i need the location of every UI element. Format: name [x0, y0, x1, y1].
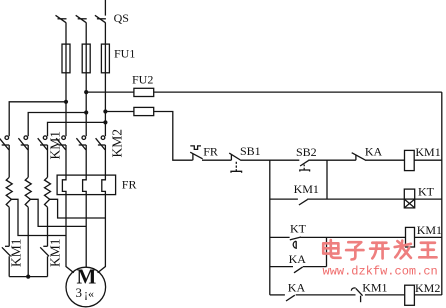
time relay contact KT delayed NO	[290, 237, 301, 248]
wire phase 1 vertical	[65, 23, 67, 136]
svg-text:FU1: FU1	[114, 46, 135, 60]
wire KM1 pole 2 lower	[27, 145, 29, 177]
resistor R phase 3	[45, 177, 51, 207]
wire KM2 pole 3 lower	[104, 145, 106, 175]
FR heater element 3	[102, 175, 106, 195]
wire bottom tie	[9, 276, 47, 278]
svg-text:KT: KT	[290, 222, 307, 236]
svg-text:3: 3	[76, 285, 83, 300]
coil KM1 rung3	[406, 227, 415, 247]
wire rung3 a	[270, 236, 290, 238]
svg-text:KM2: KM2	[110, 129, 125, 158]
wire left rail control	[269, 160, 271, 295]
pushbutton SB2 NO	[300, 160, 310, 171]
motor label M 3~	[76, 265, 97, 301]
contactor KM1 main contact 1	[0, 136, 9, 150]
svg-text:KM1: KM1	[362, 281, 387, 295]
wire branch row 1 to KM1 column 1	[9, 102, 66, 136]
wire rung4 a	[270, 266, 293, 268]
svg-text:¡«: ¡«	[84, 287, 94, 301]
wire incoming phase L3 top	[104, 0, 106, 16]
resistor R phase 1	[6, 177, 12, 207]
thermal relay FR heater box	[57, 175, 116, 195]
wire rung2 a	[270, 198, 298, 200]
resistor R phase 2	[25, 177, 31, 207]
wire vertical B	[326, 237, 328, 266]
wire branch row 3 to KM1 column 3	[48, 122, 106, 136]
char wang	[419, 243, 436, 258]
disconnect switch QS pole 2	[76, 15, 87, 22]
char zi	[346, 242, 363, 259]
wire motor lead 2	[85, 195, 87, 268]
contactor KM1 aux contact bottom 1	[2, 246, 11, 276]
wire branch row 2 to KM1 column 2	[28, 113, 86, 137]
contactor KM2 main contact 3	[96, 136, 106, 150]
wire rung1 c	[308, 159, 356, 161]
svg-text:SB2: SB2	[296, 145, 317, 159]
fuse FU1 pole 2	[82, 44, 90, 73]
wire tap 3 jog	[50, 199, 106, 218]
wire rung1 d	[366, 159, 405, 161]
wire rung2 b	[307, 198, 404, 200]
wire resistor 2 bottom	[27, 207, 29, 276]
wire rung1 a	[202, 159, 231, 161]
wire KM1 pole 1 lower	[8, 145, 10, 177]
wire phase 3 vertical	[104, 23, 106, 136]
node dot phase1 branch	[64, 100, 68, 104]
coil KT time relay	[404, 189, 414, 208]
wire control feed lower	[105, 111, 133, 113]
wire tap 1 jog	[11, 199, 66, 235]
motor M1 circle	[66, 267, 106, 307]
wire rung1 b	[241, 159, 299, 161]
relay contact KA NC rung1	[352, 153, 367, 161]
svg-text:KM1: KM1	[417, 223, 442, 237]
wire rung5 b	[296, 294, 356, 296]
wire tap 2 jog	[30, 199, 86, 226]
wire rung4 b	[303, 266, 327, 268]
wire control feed upper	[86, 91, 134, 93]
svg-text:KM1: KM1	[48, 238, 63, 267]
relay contact KA NO rung4	[294, 267, 303, 273]
contactor KM1 aux contact bottom 2	[40, 246, 49, 276]
wire rung5 d	[414, 294, 441, 296]
svg-text:QS: QS	[114, 11, 129, 25]
node dot phase3 branch	[103, 120, 107, 124]
wire from FU2 lower to control rung 1	[154, 112, 193, 161]
contactor KM2 main contact 1	[56, 136, 66, 150]
wire KM2 pole 1 lower	[65, 145, 67, 175]
wire motor lead 3	[98, 195, 106, 273]
fuse FU1 pole 1	[62, 44, 70, 73]
char fa	[395, 241, 411, 259]
FR heater element 2	[83, 175, 87, 195]
wire KM2 pole 2 lower	[85, 145, 87, 175]
svg-text:SB1: SB1	[240, 144, 261, 158]
contact FR control NC	[190, 146, 202, 160]
node dot phase2 feed	[84, 90, 88, 94]
wire phase 2 vertical	[85, 23, 87, 136]
svg-text:KT: KT	[418, 185, 435, 199]
coil KM2	[405, 285, 415, 305]
disconnect switch QS pole 1	[56, 15, 67, 22]
svg-text:KA: KA	[365, 145, 383, 159]
wire rung3 c	[415, 236, 442, 238]
svg-text:KM1: KM1	[415, 145, 440, 159]
contactor KM1 main contact 2	[18, 136, 28, 150]
char kai	[370, 243, 388, 259]
wire resistor 1 bottom	[8, 207, 10, 246]
contactor aux KM1 NC rung5	[351, 288, 362, 302]
wire right rail	[441, 92, 443, 295]
svg-text:FR: FR	[122, 178, 137, 192]
svg-text:FU2: FU2	[132, 73, 153, 87]
wire rung1 e	[414, 159, 442, 161]
wire motor lead 1	[66, 195, 74, 273]
fuse FU1 pole 3	[101, 44, 109, 73]
svg-text:www.dzkfw.com.cn: www.dzkfw.com.cn	[323, 265, 438, 279]
svg-text:KM1: KM1	[48, 131, 63, 160]
wire rung5 a	[270, 294, 285, 296]
svg-text:KA: KA	[288, 280, 306, 294]
contactor KM1 main contact 3	[38, 136, 48, 150]
svg-text:KM1: KM1	[9, 238, 24, 267]
wire vertical A	[326, 160, 328, 199]
fuse FU2 upper	[134, 88, 154, 96]
node dot bottom tie	[26, 275, 30, 279]
wire rung3 b	[300, 236, 405, 238]
node dot phase3 feed	[103, 109, 107, 113]
node dot phase2 branch	[84, 110, 88, 114]
svg-text:KM1: KM1	[294, 182, 319, 196]
relay contact KA NO rung5	[286, 295, 295, 301]
svg-text:KM2: KM2	[415, 281, 440, 295]
char dian	[323, 240, 340, 258]
wire top rail to right	[154, 91, 442, 93]
wire rung2 c	[415, 198, 442, 200]
wire resistor 3 bottom	[47, 207, 49, 246]
FR heater element 1	[62, 175, 66, 195]
watermark chinese characters	[323, 240, 436, 259]
contactor aux KM1 NO rung2	[299, 199, 308, 205]
wire KM1 pole 3 lower	[47, 145, 49, 177]
coil KM1 rung1	[405, 150, 415, 170]
pushbutton SB1 NC	[229, 153, 241, 173]
fuse FU2 lower	[134, 107, 154, 115]
contactor KM2 main contact 2	[76, 136, 86, 150]
wire rung5 c	[365, 294, 405, 296]
svg-text:FR: FR	[203, 145, 218, 159]
svg-text:KA: KA	[289, 252, 307, 266]
disconnect switch QS pole 3	[95, 15, 106, 22]
